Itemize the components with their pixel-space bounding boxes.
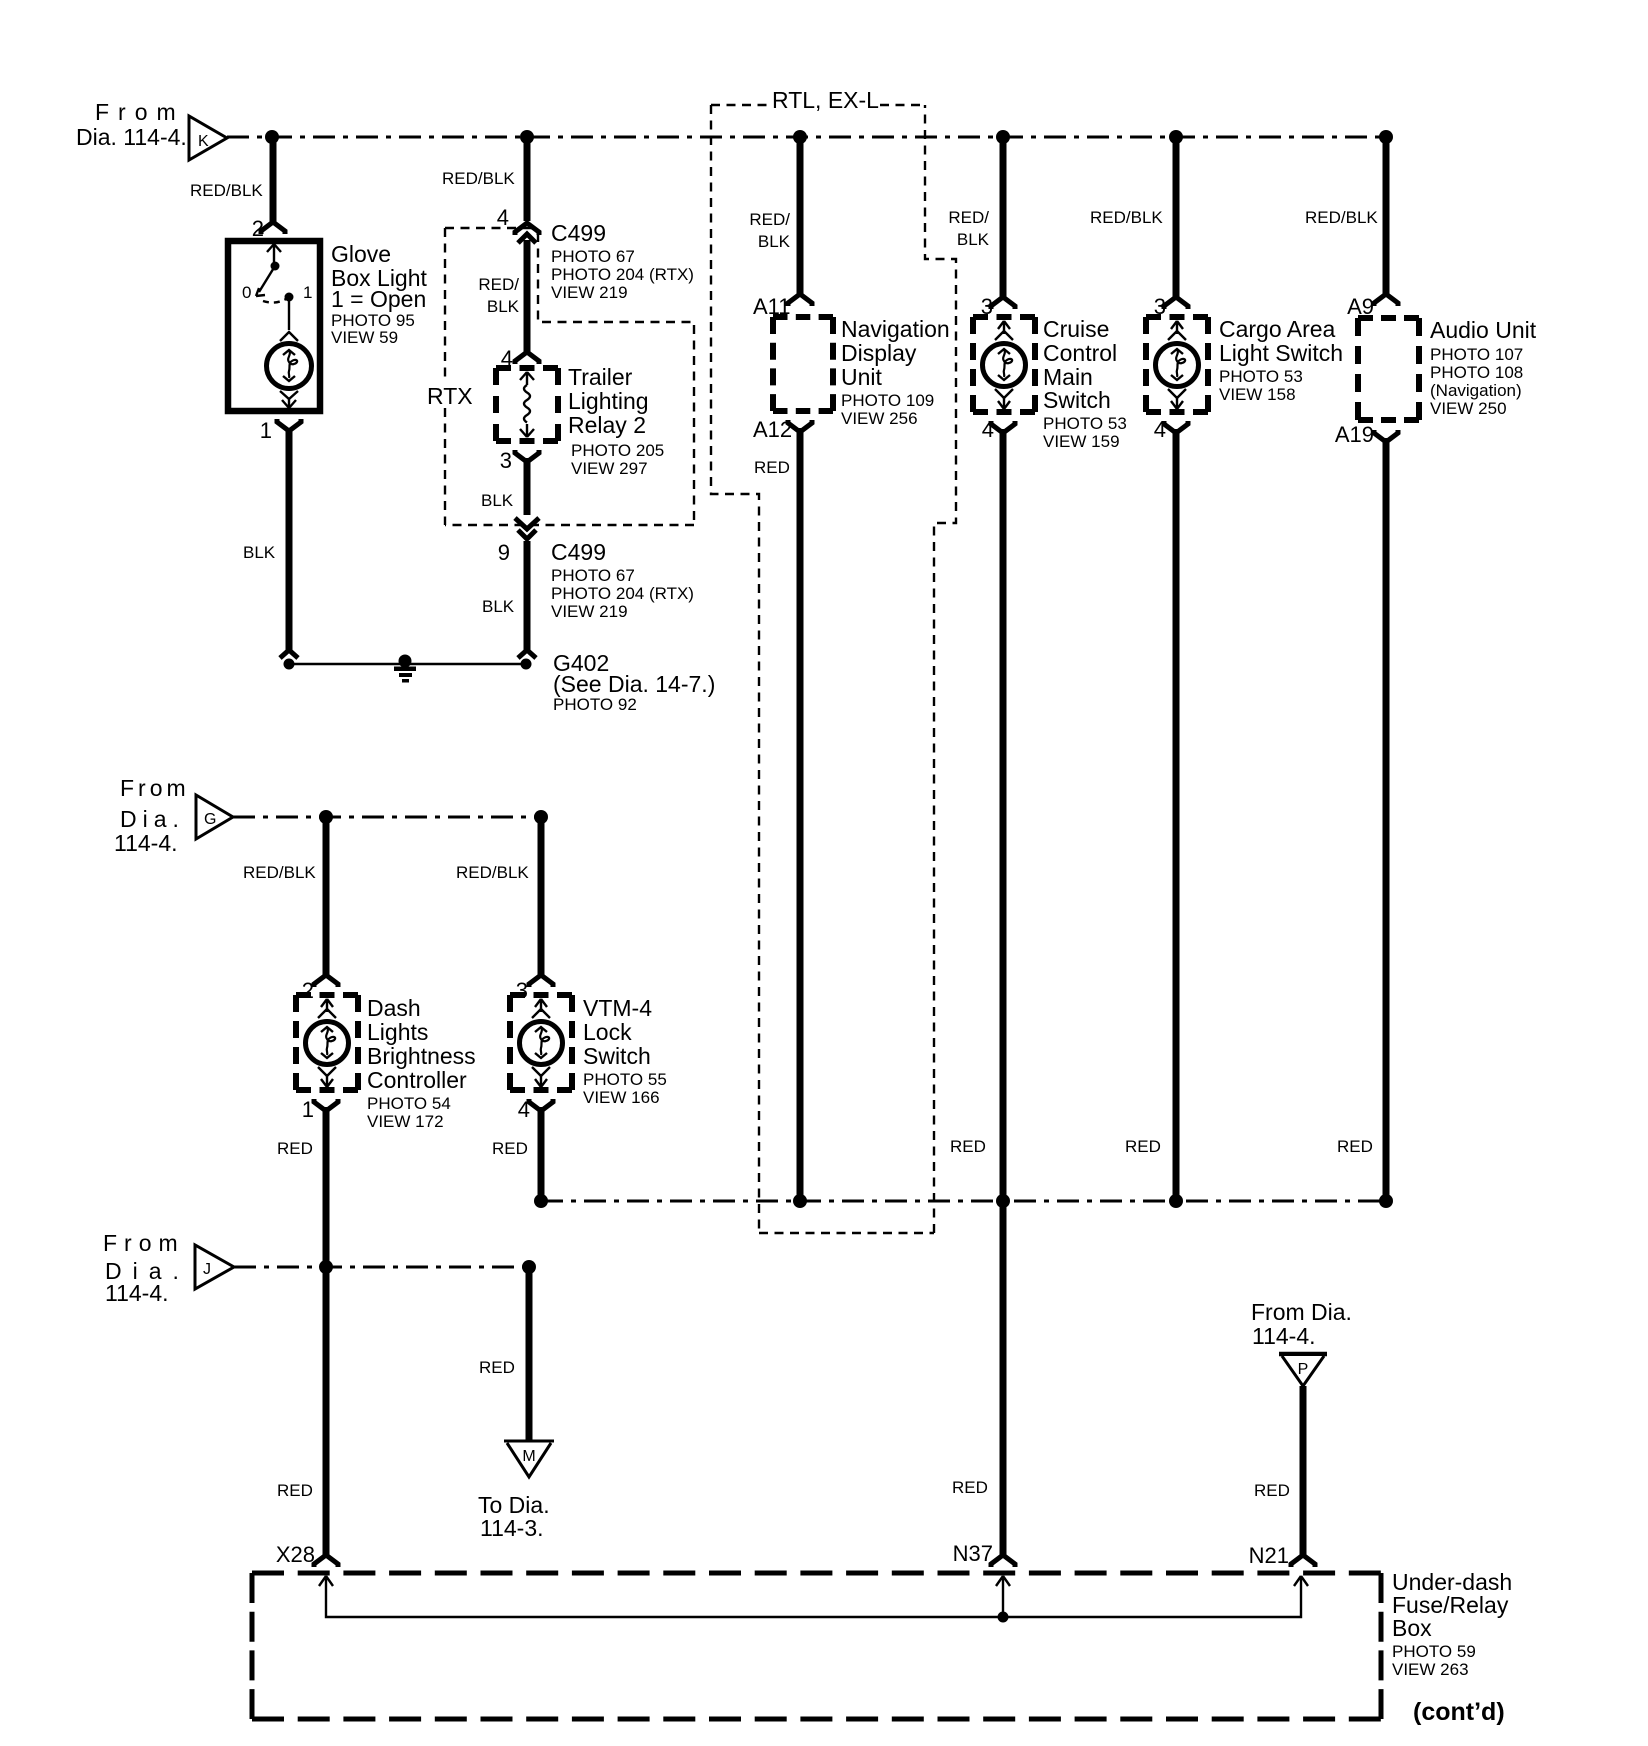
svg-text:RED: RED (754, 458, 790, 477)
pin 4 (relay) (501, 346, 513, 371)
pin 1 (260, 418, 272, 443)
svg-text:114-4.: 114-4. (1252, 1323, 1316, 1349)
label: ground G402 (553, 650, 715, 714)
svg-text:G: G (204, 811, 216, 828)
label RED (1125, 1137, 1161, 1156)
svg-text:PHOTO 204 (RTX): PHOTO 204 (RTX) (551, 584, 694, 603)
label BLK (243, 543, 276, 562)
svg-text:PHOTO 67: PHOTO 67 (551, 247, 635, 266)
svg-text:VTM-4: VTM-4 (583, 995, 652, 1021)
label BLK (482, 597, 515, 616)
svg-text:RED/: RED/ (948, 208, 989, 227)
junction dots on K bus (265, 130, 1393, 144)
RTX option dashed outline (445, 228, 694, 525)
svg-text:PHOTO 55: PHOTO 55 (583, 1070, 667, 1089)
svg-text:1: 1 (303, 283, 312, 302)
svg-text:PHOTO 109: PHOTO 109 (841, 391, 934, 410)
svg-text:VIEW 263: VIEW 263 (1392, 1660, 1469, 1679)
switch SW4: VTM-4 Lock Switch (510, 995, 572, 1090)
wire: RED from VTM-4 pin 4 to junction bus (529, 1099, 553, 1201)
label RED (479, 1358, 515, 1377)
svg-text:From: From (103, 1230, 185, 1256)
label RED/BLK (456, 863, 529, 882)
pin A11 (753, 294, 791, 319)
svg-text:RED/BLK: RED/BLK (243, 863, 316, 882)
svg-text:From: From (95, 99, 185, 125)
svg-text:N21: N21 (1249, 1543, 1289, 1568)
wire: RED/BLK from K bus to cargo switch pin 3 (1164, 137, 1188, 309)
svg-text:VIEW 250: VIEW 250 (1430, 399, 1507, 418)
label: Cruise Control Main Switch text block (1043, 316, 1127, 451)
svg-text:Control: Control (1043, 340, 1117, 366)
svg-text:RED/: RED/ (478, 275, 519, 294)
label: Dash Lights Brightness Controller text block (367, 995, 476, 1131)
label RED (277, 1139, 313, 1158)
connector triangle P (1279, 1354, 1327, 1386)
svg-text:Display: Display (841, 340, 917, 366)
label RED/BLK (243, 863, 316, 882)
pin 4 (1154, 417, 1166, 442)
svg-text:Cargo Area: Cargo Area (1219, 316, 1336, 342)
label RED/BLK (190, 181, 263, 200)
pin N21 (1249, 1543, 1289, 1568)
label 0 position (242, 283, 251, 302)
node K: From Dia. 114-4. label (76, 99, 187, 150)
svg-text:BLK: BLK (758, 232, 791, 251)
svg-text:RED: RED (1337, 1137, 1373, 1156)
svg-text:PHOTO 204 (RTX): PHOTO 204 (RTX) (551, 265, 694, 284)
wire: RED from cruise pin 4 to fuse box N37 (991, 421, 1015, 1567)
svg-text:Lighting: Lighting (568, 388, 649, 414)
svg-text:From: From (120, 775, 190, 801)
svg-text:VIEW 59: VIEW 59 (331, 328, 398, 347)
wire: BLK from C499 pin 9 to ground G402 (518, 541, 536, 658)
svg-text:RTX: RTX (427, 383, 473, 409)
wire: RED from J bus to connector M (526, 1267, 533, 1440)
pin N37 (953, 1541, 993, 1566)
svg-text:P: P (1298, 1361, 1309, 1378)
svg-text:N37: N37 (953, 1541, 993, 1566)
label 1 position (303, 283, 312, 302)
svg-text:Navigation: Navigation (841, 316, 950, 342)
label: Navigation Display Unit text block (841, 316, 950, 428)
wire: RED/BLK from G bus to dash controller pin 2 (314, 817, 338, 987)
label: Under-dash Fuse/Relay Box text block (1392, 1569, 1512, 1679)
svg-text:1 = Open: 1 = Open (331, 286, 426, 312)
connector C499 (bottom) pin 9 (515, 518, 539, 539)
svg-text:M: M (522, 1448, 535, 1465)
svg-text:PHOTO 205: PHOTO 205 (571, 441, 664, 460)
svg-text:Brightness: Brightness (367, 1043, 476, 1069)
node G: From Dia. 114-4. label (114, 775, 190, 856)
label RED (1337, 1137, 1373, 1156)
connector triangle M (504, 1441, 554, 1477)
svg-text:Box: Box (1392, 1615, 1432, 1641)
svg-text:BLK: BLK (487, 297, 520, 316)
pin 4 (C499 top) (497, 205, 509, 230)
svg-text:Dia.: Dia. (120, 806, 185, 832)
svg-text:BLK: BLK (957, 230, 990, 249)
wire: dash-dot junction bus (541, 1200, 1386, 1203)
svg-text:Trailer: Trailer (568, 364, 633, 390)
wire: BLK from relay pin 3 to C499 pin 9 (515, 450, 539, 515)
pin A12 (753, 417, 792, 442)
node P: From Dia. 114-4. label (1251, 1299, 1352, 1349)
label RTL, EX-L (772, 87, 879, 113)
wire: internal bus X28-N37-N21 (319, 1576, 1308, 1623)
svg-text:RED: RED (1125, 1137, 1161, 1156)
label RED/ BLK (948, 208, 989, 249)
svg-text:0: 0 (242, 283, 251, 302)
wire: BLK from glove pin 1 to ground (277, 419, 301, 658)
label RED (1254, 1481, 1290, 1500)
label: Trailer Lighting Relay 2 text block (568, 364, 664, 478)
label RED/BLK (1090, 208, 1163, 227)
svg-text:PHOTO 53: PHOTO 53 (1219, 367, 1303, 386)
svg-text:RED: RED (952, 1478, 988, 1497)
label: C499 bottom text block (551, 539, 694, 621)
ground G402 symbol (394, 655, 416, 683)
svg-text:RED/BLK: RED/BLK (1305, 208, 1378, 227)
wire: dash-dot bus from J (234, 1266, 529, 1269)
svg-text:PHOTO 54: PHOTO 54 (367, 1094, 451, 1113)
svg-text:Lock: Lock (583, 1019, 632, 1045)
junction dots on J bus (319, 1260, 536, 1274)
wire: RED from P to fuse box N21 (1291, 1386, 1315, 1567)
label: Cargo Area Light Switch text block (1219, 316, 1343, 404)
label RED (754, 458, 790, 477)
wire: RED from audio pin A19 to junction bus (1374, 430, 1398, 1201)
svg-text:(See Dia. 14-7.): (See Dia. 14-7.) (553, 671, 715, 697)
connector triangle K (189, 116, 227, 160)
svg-text:RED/BLK: RED/BLK (442, 169, 515, 188)
svg-text:Cruise: Cruise (1043, 316, 1109, 342)
svg-text:9: 9 (498, 540, 510, 565)
wire: RED/BLK from K bus to connector C499 pin 4 (524, 137, 531, 221)
svg-text:VIEW 219: VIEW 219 (551, 602, 628, 621)
label BLK (481, 491, 514, 510)
wire: ground bus line (284, 659, 532, 670)
label: To Dia. 114-3. (478, 1492, 550, 1541)
svg-text:VIEW 172: VIEW 172 (367, 1112, 444, 1131)
wire: RED from navigation pin A12 to junction bus (788, 420, 812, 1201)
label RED/BLK (442, 169, 515, 188)
svg-text:Glove: Glove (331, 241, 391, 267)
label RED (952, 1478, 988, 1497)
svg-text:Unit: Unit (841, 364, 883, 390)
label: VTM-4 Lock Switch text block (583, 995, 667, 1107)
wire: RED/BLK from G bus to VTM-4 switch pin 3 (529, 817, 553, 987)
svg-text:PHOTO 108: PHOTO 108 (1430, 363, 1523, 382)
svg-text:RED: RED (277, 1481, 313, 1500)
wire: RED/BLK from K bus to navigation unit pin A11 (788, 137, 812, 306)
svg-text:RED/BLK: RED/BLK (190, 181, 263, 200)
svg-text:VIEW 159: VIEW 159 (1043, 432, 1120, 451)
pin A19 (1335, 422, 1374, 447)
svg-text:PHOTO 92: PHOTO 92 (553, 695, 637, 714)
svg-text:VIEW 297: VIEW 297 (571, 459, 648, 478)
svg-text:Switch: Switch (1043, 387, 1111, 413)
svg-text:4: 4 (982, 417, 994, 442)
svg-text:114-4.: 114-4. (105, 1280, 169, 1306)
svg-text:X28: X28 (276, 1542, 315, 1567)
svg-text:2: 2 (302, 978, 314, 1003)
label RED (950, 1137, 986, 1156)
unit U2: Audio Unit (1358, 318, 1419, 420)
svg-text:Audio Unit: Audio Unit (1430, 317, 1537, 343)
svg-text:VIEW 158: VIEW 158 (1219, 385, 1296, 404)
switch/lamp SW1: Glove Box Light (228, 241, 320, 411)
junction dots on bus (534, 1194, 1393, 1208)
RTL, EX-L option dashed outline (711, 105, 956, 1233)
label RED (492, 1139, 528, 1158)
svg-text:(Navigation): (Navigation) (1430, 381, 1522, 400)
svg-text:3: 3 (516, 978, 528, 1003)
pin 3 (1154, 294, 1166, 319)
svg-text:RED/: RED/ (749, 210, 790, 229)
svg-text:VIEW 219: VIEW 219 (551, 283, 628, 302)
svg-text:Dia. 114-4.: Dia. 114-4. (76, 124, 187, 150)
svg-text:2: 2 (252, 216, 264, 241)
svg-text:RED: RED (492, 1139, 528, 1158)
switch SW3: Cargo Area Light Switch (1146, 317, 1208, 412)
svg-text:PHOTO 67: PHOTO 67 (551, 566, 635, 585)
svg-text:Lights: Lights (367, 1019, 428, 1045)
svg-text:PHOTO 107: PHOTO 107 (1430, 345, 1523, 364)
unit U1: Navigation Display Unit (773, 317, 833, 411)
svg-text:PHOTO 59: PHOTO 59 (1392, 1642, 1476, 1661)
svg-text:J: J (203, 1261, 211, 1278)
svg-text:Dash: Dash (367, 995, 421, 1021)
label RTX (427, 383, 473, 409)
wire: RED/BLK from C499 to relay pin 4 (515, 240, 539, 364)
svg-text:Controller: Controller (367, 1067, 467, 1093)
connector triangle G (196, 795, 233, 839)
svg-text:RED: RED (277, 1139, 313, 1158)
pin 4 (982, 417, 994, 442)
svg-text:A19: A19 (1335, 422, 1374, 447)
node J: From Dia. 114-4. label (103, 1230, 190, 1306)
svg-text:RED/BLK: RED/BLK (1090, 208, 1163, 227)
label: Audio Unit text block (1430, 317, 1537, 418)
svg-text:Relay 2: Relay 2 (568, 412, 646, 438)
connector triangle J (195, 1245, 234, 1289)
label (cont'd) (1413, 1698, 1505, 1726)
pin 9 (498, 540, 510, 565)
pin 3 (relay) (500, 448, 512, 473)
label RED/ BLK (478, 275, 519, 316)
svg-text:4: 4 (1154, 417, 1166, 442)
wire: RED/BLK from K bus to audio unit pin A9 (1374, 137, 1398, 306)
svg-text:C499: C499 (551, 220, 606, 246)
label: C499 top text block (551, 220, 694, 302)
pin 2 (252, 216, 264, 241)
relay K1: Trailer Lighting Relay 2 (496, 368, 558, 441)
label: Glove Box Light text block (331, 241, 428, 347)
svg-text:RED: RED (479, 1358, 515, 1377)
svg-text:4: 4 (497, 205, 509, 230)
svg-text:RED: RED (1254, 1481, 1290, 1500)
svg-text:RED: RED (950, 1137, 986, 1156)
svg-text:(cont’d): (cont’d) (1413, 1698, 1505, 1726)
switch SW2: Cruise Control Main Switch (973, 317, 1035, 412)
svg-text:K: K (198, 133, 209, 150)
connector C499 (top) (515, 223, 539, 243)
label RED (277, 1481, 313, 1500)
wire: RED from cargo pin 4 to junction bus (1164, 421, 1188, 1201)
svg-text:From Dia.: From Dia. (1251, 1299, 1352, 1325)
pin 1 (302, 1097, 314, 1122)
svg-text:114-4.: 114-4. (114, 830, 178, 856)
wire: RED/BLK from K bus to cruise switch pin 3 (991, 137, 1015, 309)
pin 4 (518, 1097, 530, 1122)
rheostat R1: Dash Lights Brightness Controller (296, 995, 358, 1090)
label RED/ BLK (749, 210, 790, 251)
svg-text:VIEW 166: VIEW 166 (583, 1088, 660, 1107)
svg-text:VIEW 256: VIEW 256 (841, 409, 918, 428)
svg-text:BLK: BLK (482, 597, 515, 616)
svg-text:Switch: Switch (583, 1043, 651, 1069)
wire: dash-dot bus from K (227, 136, 1386, 139)
svg-text:C499: C499 (551, 539, 606, 565)
svg-text:RED/BLK: RED/BLK (456, 863, 529, 882)
svg-text:BLK: BLK (481, 491, 514, 510)
pin A9 (1347, 294, 1374, 319)
wire: RED from dash controller pin 1 to fuse box X28 (314, 1099, 338, 1567)
svg-text:BLK: BLK (243, 543, 276, 562)
svg-text:3: 3 (500, 448, 512, 473)
pin 3 (981, 294, 993, 319)
box: Under-dash Fuse/Relay Box (252, 1573, 1381, 1719)
svg-text:1: 1 (260, 418, 272, 443)
pin 3 (516, 978, 528, 1003)
label RED/BLK (1305, 208, 1378, 227)
svg-text:Light Switch: Light Switch (1219, 340, 1343, 366)
wire: dash-dot bus from G (233, 816, 541, 819)
pin X28 (276, 1542, 315, 1567)
pin 2 (302, 978, 314, 1003)
svg-text:PHOTO 53: PHOTO 53 (1043, 414, 1127, 433)
svg-text:114-3.: 114-3. (480, 1515, 544, 1541)
svg-text:RTL, EX-L: RTL, EX-L (772, 87, 879, 113)
junction dots on G bus (319, 810, 548, 824)
wire: RED/BLK to glove box light pin 2 (261, 137, 285, 234)
